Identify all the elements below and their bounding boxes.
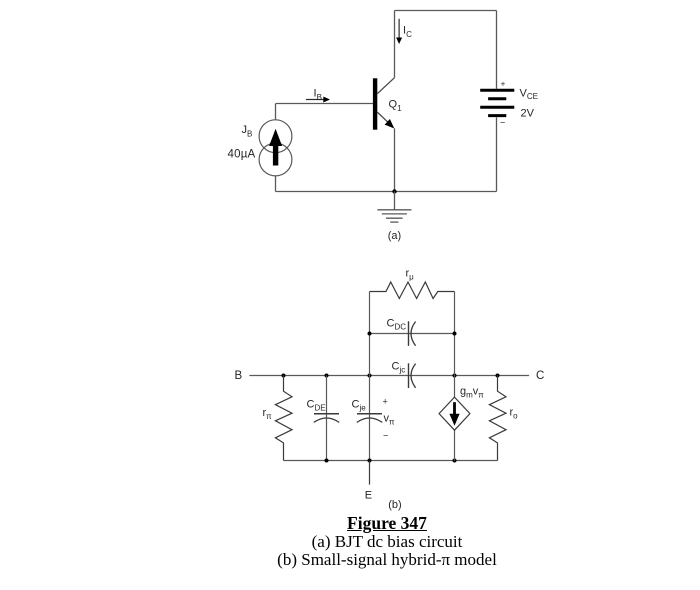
label gm vpi [460,386,484,400]
capacitor Cje [357,376,382,461]
wire E stub [369,461,371,485]
label JB [242,124,253,139]
svg-text:vπ: vπ [384,413,396,427]
svg-text:(b): (b) [388,499,401,511]
label IB [314,88,322,103]
capacitor CDC [409,321,416,346]
wire current source bottom lead [275,176,277,192]
battery VCE 2V [480,90,514,115]
label IC [403,25,412,40]
battery minus sign [500,118,505,128]
svg-text:ro: ro [510,407,519,421]
node dot B-prime [368,374,372,378]
svg-text:C: C [536,370,544,382]
label rpi [263,407,273,421]
arrow IC [396,19,402,44]
svg-text:Q1: Q1 [389,99,403,114]
label (a) [388,230,401,242]
label E [365,490,372,502]
resistor ro [489,376,506,461]
svg-text:CDC: CDC [387,318,407,332]
label vpi minus [383,431,388,441]
label ro [510,407,519,421]
svg-text:B: B [235,370,243,382]
capacitor CDE [314,376,339,461]
svg-text:−: − [383,431,388,441]
wire current source top lead [275,104,277,120]
svg-text:(a): (a) [388,230,401,242]
svg-text:2V: 2V [521,107,535,119]
label Q1 [389,99,403,114]
svg-text:VCE: VCE [520,88,538,102]
dependent source gm vpi [439,397,470,430]
svg-text:rπ: rπ [263,407,273,421]
label CDC [387,318,407,332]
label vpi [384,413,396,427]
svg-text:rμ: rμ [406,268,415,282]
resistor rmu [370,282,455,299]
caption line b [37,550,700,570]
caption line a [37,532,700,552]
wire right riser to rmu [454,292,456,376]
svg-text:gmvπ: gmvπ [460,386,484,400]
svg-text:+: + [383,397,388,407]
wire left riser to rmu [369,292,371,376]
label vpi plus [383,397,388,407]
wire CDC branch [370,333,455,335]
arrow IB [306,97,330,103]
node dot rpi top [282,374,286,378]
svg-text:CDE: CDE [307,399,326,413]
wire battery bottom lead [496,117,498,191]
svg-text:+: + [501,79,506,89]
label rmu [406,268,415,282]
wire base [276,103,374,105]
wire top from collector to battery [395,10,497,12]
wire source top lead [454,376,456,398]
svg-text:IC: IC [403,25,412,40]
svg-text:E: E [365,490,372,502]
label Cjc [392,361,406,375]
svg-text:40µA: 40µA [228,149,256,161]
label 40uA [228,149,256,161]
wire collector [394,11,396,78]
svg-text:Cjc: Cjc [392,361,406,375]
wire source bottom lead [454,430,456,460]
label VCE [520,88,538,102]
battery plus sign [501,79,506,89]
node dot source bottom [453,459,457,463]
caption figure number [37,513,700,534]
wire bottom rail circuit a [276,191,497,193]
label B [235,370,243,382]
node dot C-prime [453,374,457,378]
node dot CDE bottom [325,459,329,463]
svg-text:JB: JB [242,124,253,139]
wire emitter [394,128,396,191]
node dot CDC right [453,332,457,336]
junction dot emitter-rail [392,189,396,193]
label CDE [307,399,326,413]
svg-text:−: − [500,118,505,128]
current source JB 40uA [259,120,292,176]
wire main line B to C [249,375,529,377]
node dot ro top [496,374,500,378]
node dot E junction [368,459,372,463]
label C [536,370,544,382]
ground [377,192,411,223]
wire battery top lead [496,11,498,89]
svg-text:Cje: Cje [352,399,367,413]
node dot CDC left [368,332,372,336]
label 2V [521,107,535,119]
capacitor Cjc [409,363,416,388]
label (b) [388,499,401,511]
node dot CDE top [325,374,329,378]
wire bottom rail circuit b [284,460,498,462]
resistor rpi [275,376,292,461]
transistor Q1 [373,78,395,130]
label Cje [352,399,367,413]
